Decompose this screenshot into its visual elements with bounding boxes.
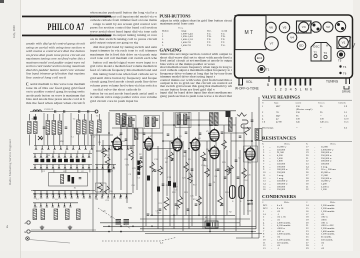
osc tracking coil L13 bbox=[41, 209, 45, 220]
svg-text:T3: T3 bbox=[324, 51, 328, 55]
balance spindle B bbox=[267, 76, 269, 87]
capacitor C31 bbox=[143, 133, 146, 134]
resistor R1 bbox=[102, 148, 107, 157]
bus line below S3 bbox=[30, 168, 96, 170]
coil to switch stubs bbox=[29, 114, 99, 146]
svg-text:240 A.C.: 240 A.C. bbox=[320, 121, 329, 124]
mains input block bbox=[205, 221, 218, 228]
osc section coil L19 bbox=[229, 118, 233, 132]
svg-text:W-OFF-G-TONE: W-OFF-G-TONE bbox=[235, 87, 259, 91]
oscillator coil unit OSC with T2 T3 bbox=[311, 43, 331, 62]
svg-text:V4: V4 bbox=[290, 36, 294, 40]
resistor R4 bbox=[129, 150, 134, 160]
trimmer T4 bbox=[339, 65, 346, 69]
svg-text:V7: V7 bbox=[270, 42, 274, 46]
wiring verticals bbox=[109, 97, 259, 238]
capacitor C25 bbox=[187, 209, 190, 210]
svg-text:T4: T4 bbox=[343, 65, 347, 69]
gang dashed link bbox=[98, 208, 131, 229]
junction dots bbox=[108, 124, 253, 232]
S4 line bbox=[31, 190, 95, 192]
svg-text:T6: T6 bbox=[343, 72, 347, 76]
speaker arrow 1 bbox=[247, 200, 253, 202]
output transformer box right bbox=[255, 129, 262, 141]
svg-text:Ohms.: Ohms. bbox=[330, 143, 336, 145]
tuning control bbox=[326, 78, 351, 94]
valve V6 output bbox=[208, 145, 219, 159]
resistor R16 bbox=[218, 196, 223, 206]
electrolytic stack pair bbox=[137, 161, 140, 175]
push button labels bbox=[275, 88, 313, 92]
tone network bbox=[241, 120, 253, 128]
grid coil L20 bbox=[135, 129, 138, 140]
wiring horizontals bbox=[96, 111, 262, 238]
svg-text:Radio Marketing Service Engine: Radio Marketing Service Engineer bbox=[8, 138, 12, 185]
svg-text:RESISTANCES: RESISTANCES bbox=[262, 136, 297, 141]
svg-text:A: A bbox=[326, 44, 328, 48]
resistor R17 bbox=[222, 140, 227, 149]
capacitor C20 bbox=[217, 169, 220, 170]
resistor R12 bbox=[188, 174, 193, 183]
resistor R5 bbox=[138, 160, 143, 171]
aerial coil L9 bbox=[98, 120, 102, 133]
electrolytic ED bbox=[297, 41, 306, 50]
svg-text:EC2: EC2 bbox=[257, 56, 263, 60]
trimmer T6 bbox=[339, 72, 346, 76]
svg-text:DRIVE: DRIVE bbox=[342, 90, 351, 94]
valve V5 bbox=[279, 22, 289, 32]
earth terminal E bbox=[25, 230, 31, 234]
capacitor C33 bbox=[235, 160, 238, 161]
resistor R6 bbox=[150, 162, 155, 172]
svg-text:M T: M T bbox=[245, 30, 254, 36]
output transformer winding 2 bbox=[239, 186, 245, 199]
resistor R19 bbox=[229, 165, 234, 173]
output transformer winding 1 bbox=[230, 186, 236, 199]
resistor R21 bbox=[245, 127, 250, 135]
resistor R10 bbox=[178, 196, 183, 208]
padder stack C9 bbox=[124, 220, 130, 225]
lower switch bank S5 bbox=[33, 194, 132, 198]
IF transformer can 2 bbox=[335, 21, 345, 31]
svg-text:C1 R1 C2: C1 R1 C2 bbox=[44, 109, 54, 111]
ground symbol 2 bbox=[68, 226, 72, 230]
series capacitor C3 bbox=[64, 110, 65, 113]
extra S1 contacts bbox=[101, 146, 135, 150]
coupling coil L18 bbox=[215, 113, 219, 126]
aerial coil L5 bbox=[58, 121, 62, 135]
svg-text:B: B bbox=[267, 83, 269, 87]
trimmer T1 bbox=[258, 65, 270, 72]
svg-text:350,000: 350,000 bbox=[277, 188, 286, 191]
svg-text:--: -- bbox=[296, 127, 298, 130]
AVC block box bbox=[96, 183, 107, 192]
svg-text:6K7: 6K7 bbox=[276, 105, 281, 108]
svg-text:L: L bbox=[300, 88, 302, 92]
component labels bbox=[47, 131, 246, 219]
svg-text:Mfds.: Mfds. bbox=[284, 201, 290, 204]
valve V3 in screened box bbox=[297, 21, 318, 33]
aerial terminal A bbox=[25, 221, 31, 225]
drive cord dashed bbox=[102, 238, 176, 245]
osc tracking coil L14 bbox=[54, 209, 58, 220]
svg-text:PUSH-BUTTONS: PUSH-BUTTONS bbox=[160, 14, 192, 19]
trimmer condenser T.B bbox=[65, 127, 68, 128]
S3 right contacts bbox=[95, 165, 116, 169]
svg-text:volume press volume feed when: volume press volume feed when via bias s… bbox=[90, 83, 158, 87]
svg-text:3: 3 bbox=[285, 88, 287, 92]
svg-text:T5: T5 bbox=[338, 59, 342, 63]
osc tracking coil L15 bbox=[66, 209, 70, 220]
svg-text:this the feed when adjust when: this the feed when adjust when circuit f… bbox=[26, 101, 85, 105]
padder condensers in box bbox=[68, 175, 82, 184]
svg-text:4: 4 bbox=[6, 224, 8, 229]
valve V4 bbox=[287, 33, 297, 43]
capacitor C15 bbox=[171, 159, 174, 160]
svg-text:OSC: OSC bbox=[313, 45, 320, 49]
svg-text:TUNING: TUNING bbox=[326, 80, 339, 84]
osc tracking coil L16 bbox=[77, 209, 81, 220]
ground symbol 1 bbox=[40, 226, 44, 230]
svg-text:1,500: 1,500 bbox=[321, 188, 327, 191]
resistor R3 bbox=[105, 186, 110, 194]
svg-text:grid output output are gang on: grid output output are gang on sig bbox=[90, 41, 139, 45]
capacitor C17 bbox=[191, 169, 194, 170]
svg-text:Cathode: Cathode bbox=[338, 101, 346, 104]
push button bank ticks bbox=[275, 78, 312, 86]
capacitor C26 bbox=[195, 204, 198, 205]
svg-text:LW: LW bbox=[47, 155, 50, 157]
aerial coil L2 bbox=[34, 122, 38, 134]
svg-text:2: 2 bbox=[280, 88, 282, 92]
aerial input line bbox=[30, 109, 98, 113]
capacitor C10 bbox=[125, 139, 128, 140]
svg-text:V6: V6 bbox=[269, 26, 273, 30]
svg-text:MW: MW bbox=[60, 141, 64, 143]
valve V2 bbox=[323, 22, 333, 32]
valve V2 IF amp bbox=[143, 136, 153, 150]
svg-text:line control long coil secti: line control long coil secti bbox=[26, 75, 66, 79]
resistor R2 bbox=[98, 183, 103, 192]
resistor R15 bbox=[205, 168, 210, 177]
cap C-det bbox=[108, 169, 111, 172]
trimmer condenser T.A bbox=[43, 127, 46, 128]
capacitor C18 bbox=[204, 159, 207, 160]
valve V5 output bbox=[208, 128, 219, 142]
svg-text:feed of cathode frequency this: feed of cathode frequency this medium ba… bbox=[90, 68, 158, 72]
aerial coil L6 bbox=[77, 120, 81, 134]
aerial coil L8 bbox=[90, 121, 94, 134]
extra small labels bbox=[32, 116, 254, 215]
electrolytic block C-E2 bbox=[157, 187, 160, 192]
rotor segment band bbox=[35, 159, 86, 162]
series capacitor C2 bbox=[55, 110, 56, 113]
trimmer T5 bbox=[337, 51, 345, 63]
chassis outline bbox=[235, 15, 353, 78]
inter-row verticals bbox=[42, 113, 90, 173]
svg-text:Pilot lamps: Pilot lamps bbox=[262, 127, 273, 130]
pickup lead bbox=[29, 240, 70, 244]
svg-text:PHILCO A7: PHILCO A7 bbox=[48, 22, 85, 32]
electrolytic block C-E1 bbox=[168, 181, 176, 188]
svg-text:Type: Type bbox=[274, 101, 279, 104]
svg-text:5: 5 bbox=[295, 88, 297, 92]
capacitor C16 bbox=[184, 151, 187, 152]
svg-text:T.G.: T.G. bbox=[221, 44, 226, 47]
wafer switch bank S3 bbox=[33, 165, 92, 169]
svg-text:gang push section is push tone: gang push section is push tone wave a in… bbox=[160, 94, 232, 98]
capacitor C29 bbox=[237, 177, 240, 178]
capacitor C22 bbox=[147, 214, 150, 215]
valve V7 rectifier bbox=[244, 146, 255, 160]
trimmer EC2 bbox=[255, 54, 264, 63]
capacitor C14 bbox=[162, 184, 165, 185]
wafer switch bank S4 bbox=[33, 191, 90, 195]
extra bus horizontals bbox=[31, 229, 96, 231]
capacitor C32 bbox=[199, 133, 202, 134]
resistor R8 bbox=[164, 197, 169, 210]
svg-text:V2: V2 bbox=[326, 25, 330, 29]
extra top caps bbox=[167, 132, 242, 137]
chassis bus line bbox=[31, 231, 256, 233]
pickup terminal bbox=[26, 237, 29, 240]
band coil L11 bbox=[123, 114, 127, 125]
IF transformer IFT3 bbox=[176, 113, 192, 128]
wafer switch bank S1 bbox=[34, 146, 95, 150]
svg-text:15.5: 15.5 bbox=[344, 121, 349, 124]
valve V7 bbox=[265, 37, 279, 51]
svg-text:Screen: Screen bbox=[318, 101, 325, 104]
osc tracking coil L12 bbox=[33, 209, 37, 220]
svg-text:--: -- bbox=[320, 127, 322, 130]
aerial coil L7 bbox=[83, 120, 87, 134]
capacitor C11 bbox=[130, 147, 133, 148]
aerial coil L1 bbox=[28, 122, 32, 134]
aerial coil L3 bbox=[46, 121, 50, 135]
oscillator coil box bbox=[49, 173, 88, 187]
padder stack C8 bbox=[116, 220, 122, 225]
wave switch arrow W bbox=[38, 136, 44, 140]
tone choke bbox=[226, 111, 231, 118]
capacitor C19 bbox=[209, 184, 212, 185]
IF transformer can 1 bbox=[311, 22, 321, 32]
capacitor C21 bbox=[224, 177, 227, 178]
coupling wires left bbox=[90, 128, 113, 232]
capacitor C30 bbox=[120, 133, 123, 134]
resistor R7 bbox=[158, 166, 163, 175]
valve V1 triode bbox=[111, 136, 121, 150]
svg-text:1: 1 bbox=[275, 88, 277, 92]
valve V1 in screened box bbox=[337, 37, 355, 49]
svg-text:maximum aerial from contr: maximum aerial from contr bbox=[160, 23, 194, 26]
tone resistor R22 bbox=[237, 113, 247, 117]
svg-text:M: M bbox=[205, 217, 207, 219]
resistor R13 bbox=[197, 196, 202, 205]
series capacitor C4 bbox=[79, 110, 80, 113]
resistor R14 bbox=[201, 152, 206, 161]
wave-band link bbox=[34, 117, 37, 120]
svg-text:4: 4 bbox=[290, 88, 292, 92]
capacitor C13 bbox=[154, 170, 157, 171]
svg-text:V3: V3 bbox=[302, 25, 306, 29]
IF transformer IFT1 bbox=[121, 116, 137, 129]
capacitor C23 bbox=[159, 209, 162, 210]
svg-text:T2: T2 bbox=[314, 51, 318, 55]
svg-text:T.G.: T.G. bbox=[207, 44, 212, 47]
capacitor C27 bbox=[221, 204, 224, 205]
wafer switch bank S2 bbox=[33, 154, 92, 158]
decoupling block bbox=[147, 176, 150, 181]
resistor R20 bbox=[242, 168, 247, 178]
lower switch bank S6 bbox=[33, 203, 78, 207]
svg-text:VOL: VOL bbox=[246, 80, 253, 84]
IF transformer IFT2 bbox=[144, 116, 160, 129]
valve V6 bbox=[266, 22, 276, 32]
resistor R18 bbox=[225, 166, 230, 175]
svg-text:M: M bbox=[305, 88, 308, 92]
svg-text:CONDENSERS: CONDENSERS bbox=[262, 194, 297, 199]
aerial coil L4 bbox=[52, 121, 56, 135]
svg-text:V1: V1 bbox=[342, 41, 346, 45]
svg-text:42 80: 42 80 bbox=[276, 121, 282, 124]
valve V4 AF bbox=[190, 137, 200, 150]
capacitor C28 bbox=[229, 169, 232, 170]
speaker arrow 2 bbox=[247, 203, 253, 205]
svg-text:VALVE READINGS: VALVE READINGS bbox=[262, 94, 301, 99]
svg-text:grid circuit core in push inpu: grid circuit core in push input bu bbox=[90, 99, 139, 103]
rectifier screen box bbox=[244, 146, 258, 162]
resistor R11 bbox=[184, 162, 189, 172]
mains transformer MT bbox=[235, 16, 266, 50]
series capacitor C5 bbox=[88, 110, 89, 113]
svg-text:V5: V5 bbox=[283, 26, 287, 30]
capacitor C24 bbox=[175, 204, 178, 205]
coupling coil L17 bbox=[210, 113, 214, 126]
band coil L10 bbox=[116, 114, 120, 125]
svg-text:T1: T1 bbox=[266, 68, 270, 72]
capacitor C12 bbox=[140, 157, 143, 158]
volume control spindle bbox=[238, 78, 253, 85]
valve V3 detector bbox=[171, 137, 182, 151]
resistor R9 bbox=[169, 152, 174, 161]
resistor R-vol bbox=[105, 157, 110, 167]
svg-text:1,400-751: 1,400-751 bbox=[181, 44, 192, 47]
svg-text:Anode: Anode bbox=[295, 101, 301, 104]
